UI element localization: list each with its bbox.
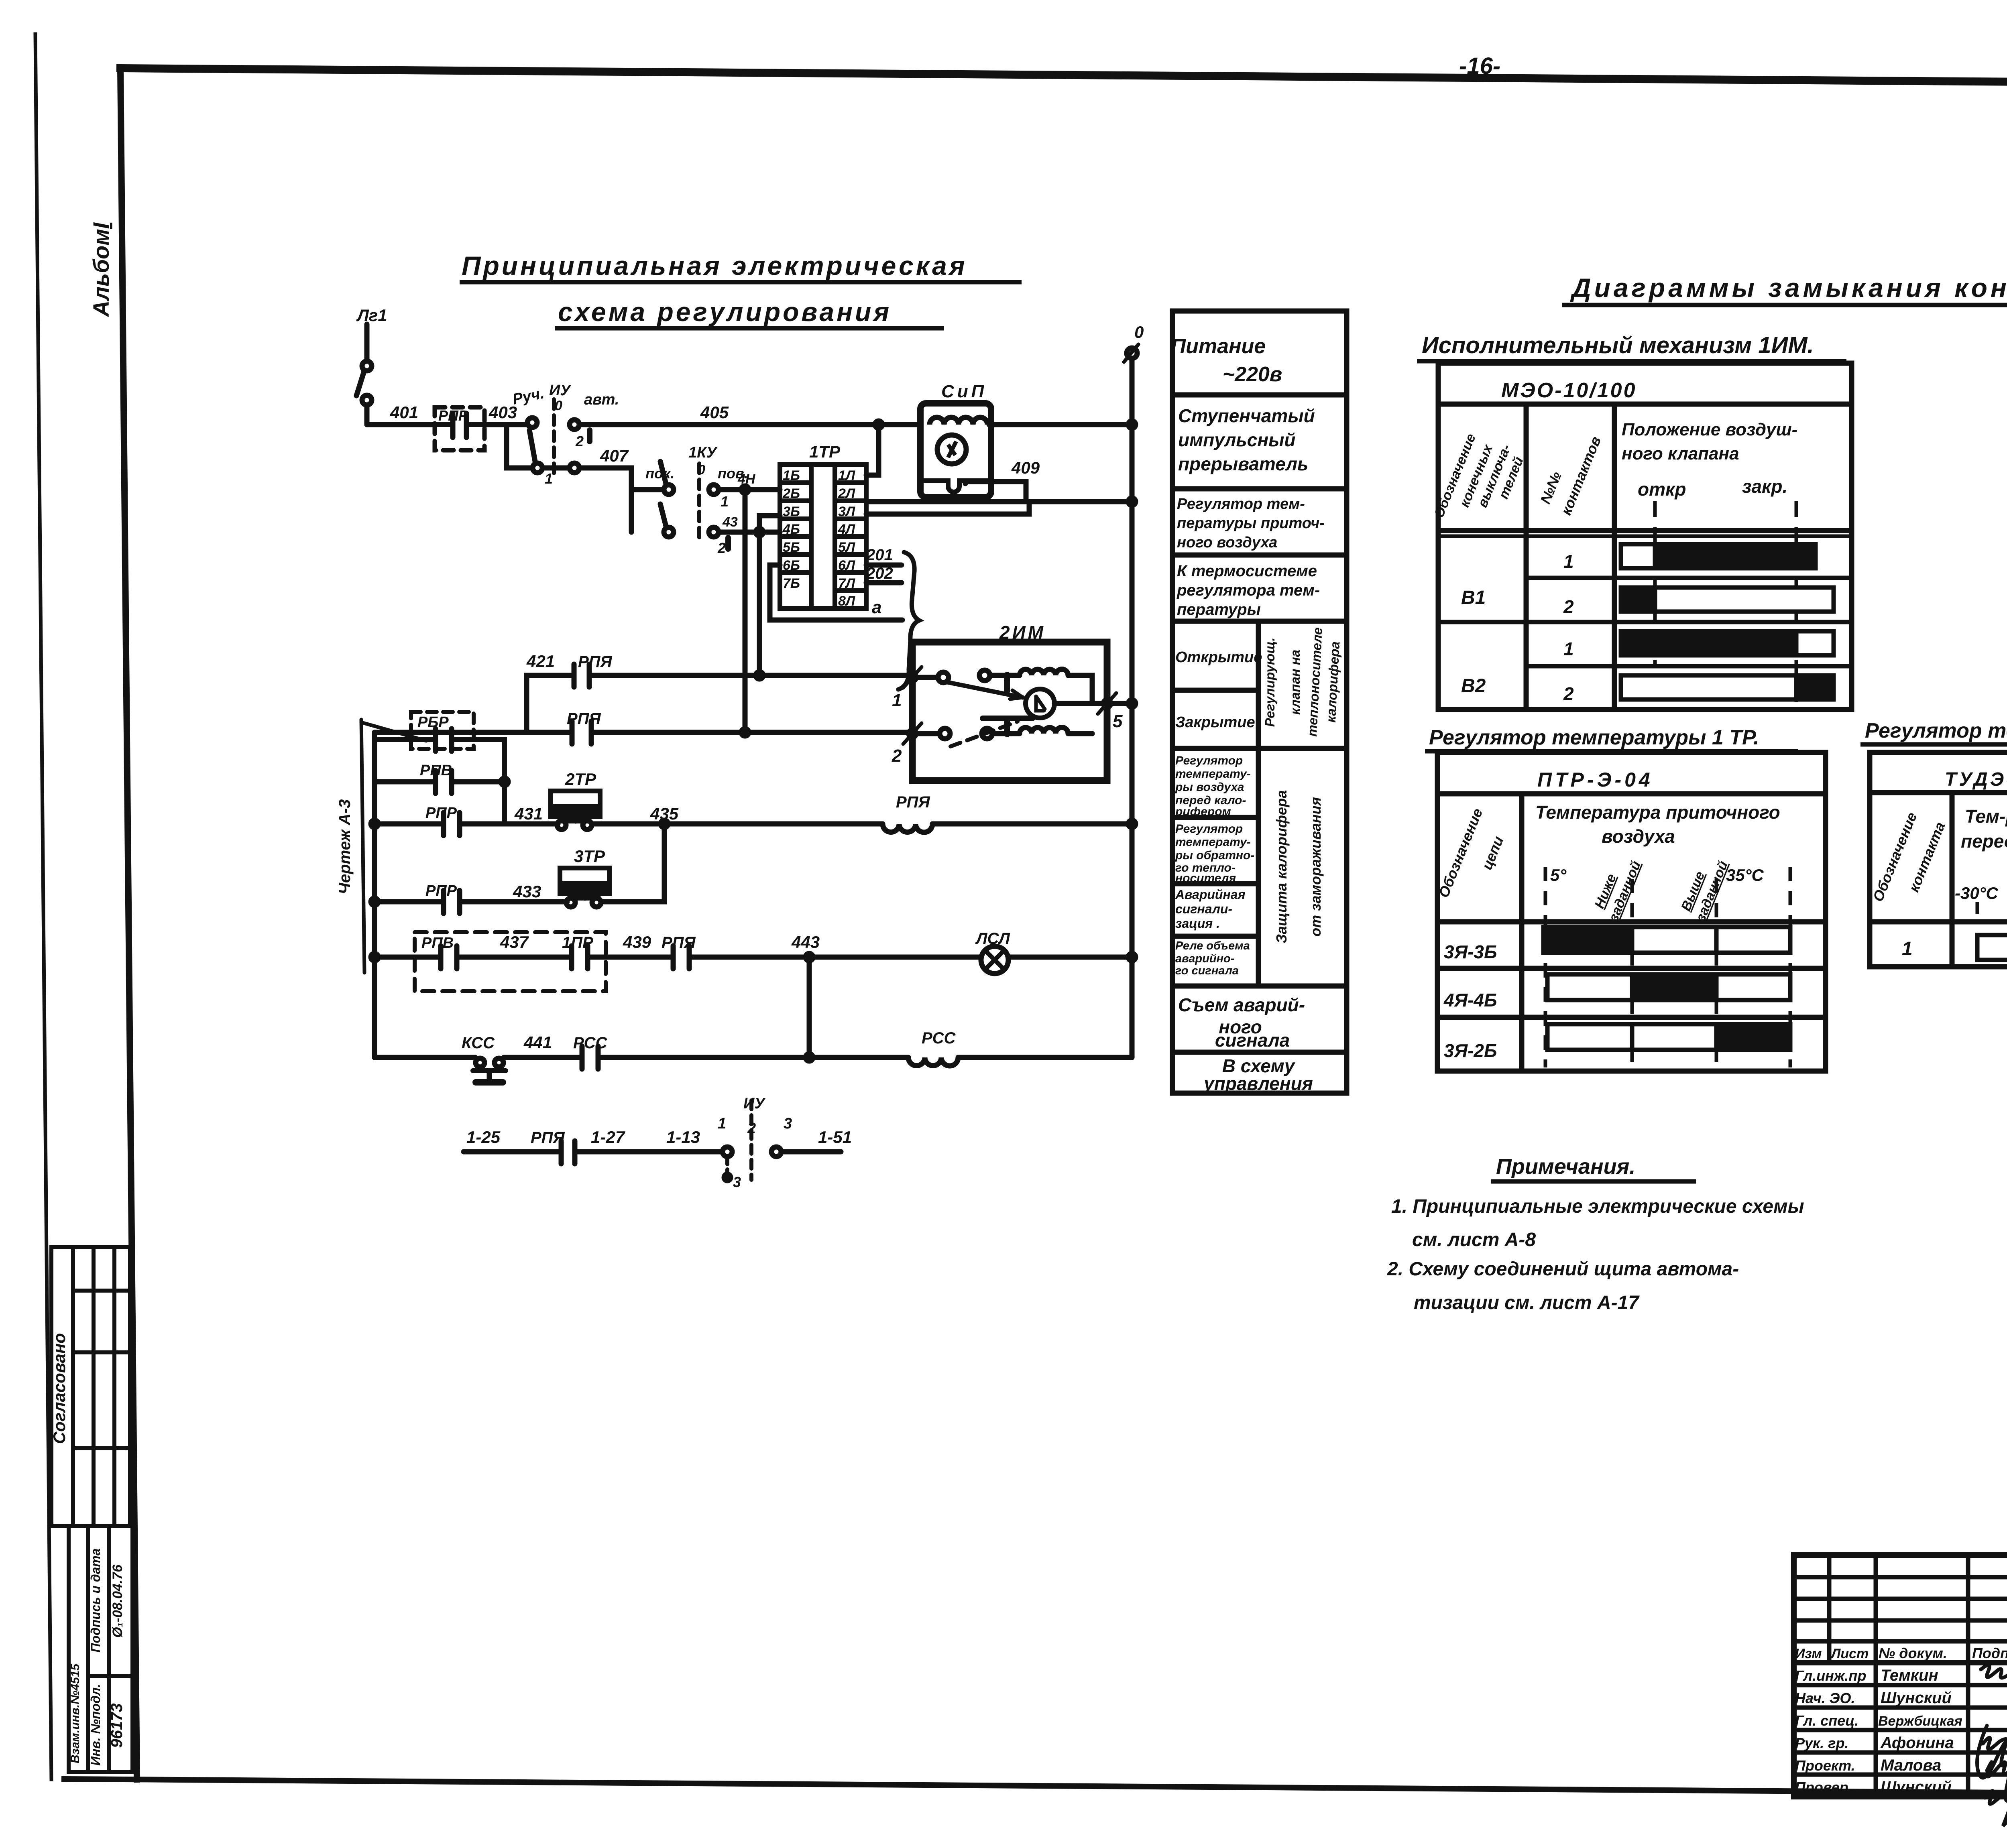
ИУ aux contact right (771, 1147, 781, 1157)
svg-text:Регулятор: Регулятор (1175, 822, 1243, 836)
svg-text:35°С: 35°С (1726, 866, 1764, 884)
contact РПЯ (421 row) (572, 664, 577, 687)
svg-text:2: 2 (717, 540, 726, 556)
svg-text:СиП: СиП (941, 382, 987, 401)
svg-text:Гл. спец.: Гл. спец. (1795, 1712, 1858, 1729)
svg-text:тизации см. лист А-17: тизации см. лист А-17 (1414, 1292, 1640, 1313)
ref leader diagonal to РБР (361, 722, 426, 741)
svg-text:401: 401 (390, 403, 418, 422)
svg-text:4Б: 4Б (782, 522, 800, 537)
contact пок row 1 (631, 487, 664, 492)
svg-text:ТУДЭ-1: ТУДЭ-1 (1945, 769, 2007, 790)
svg-text:1: 1 (892, 691, 902, 710)
1ИМ bar В1-2 (1621, 588, 1834, 612)
svg-text:409: 409 (1011, 458, 1040, 477)
title block frame (1794, 1555, 2007, 1797)
svg-text:Регулирующ.: Регулирующ. (1262, 638, 1277, 727)
svg-text:2Л: 2Л (838, 486, 855, 501)
svg-text:КСС: КСС (462, 1034, 495, 1052)
1ТР title underline (1425, 749, 1798, 754)
dashed enclosure 437 group (415, 932, 606, 991)
svg-text:Нач. ЭО.: Нач. ЭО. (1795, 1690, 1855, 1706)
2ИМ upper coil (990, 673, 1020, 678)
svg-text:-16-: -16- (1459, 53, 1500, 79)
svg-text:1: 1 (1902, 938, 1913, 960)
2ТР dashed marks (1977, 902, 2007, 923)
relay contact РПР (dashed box) (435, 407, 484, 450)
2ТР table frame (1870, 752, 2007, 967)
svg-text:433: 433 (513, 882, 541, 901)
svg-text:РСС: РСС (922, 1029, 956, 1047)
svg-text:1: 1 (721, 493, 729, 510)
main title underline 1 (460, 280, 1022, 285)
svg-text:ПТР-Э-04: ПТР-Э-04 (1537, 768, 1653, 791)
contact РБР dashed box (411, 712, 474, 749)
left margin table Согласовано (51, 1247, 130, 1526)
wire 421 row to 2ИМ (589, 673, 912, 678)
svg-text:Ø₁-08.04.76: Ø₁-08.04.76 (110, 1564, 125, 1638)
contact РБР (375, 737, 436, 742)
svg-text:443: 443 (791, 933, 820, 951)
svg-text:см. лист А-8: см. лист А-8 (1412, 1229, 1536, 1250)
svg-text:7Л: 7Л (838, 576, 855, 591)
svg-text:Съем аварий-: Съем аварий- (1178, 994, 1305, 1015)
switch ИУ auto contacts (570, 420, 579, 429)
svg-text:ИУ: ИУ (743, 1095, 766, 1112)
relay coil РСС (908, 1057, 958, 1066)
2ИМ input 1 crossing (909, 674, 916, 681)
svg-text:43: 43 (722, 514, 738, 530)
svg-text:импульсный: импульсный (1178, 429, 1296, 450)
2ИМ upper T-bar (1004, 675, 1010, 691)
wire 43 to terminal 4Б (719, 530, 780, 535)
switch ЛВ (362, 361, 372, 371)
svg-text:В2: В2 (1461, 675, 1486, 697)
thermostat 2ТР (551, 791, 600, 817)
vertical link 4Н to РПЯ row (743, 490, 748, 732)
contact РПЯ (main row) (570, 721, 575, 744)
svg-text:РПР: РПР (425, 805, 457, 821)
svg-text:3: 3 (733, 1174, 741, 1190)
svg-text:К термосистеме: К термосистеме (1177, 562, 1317, 580)
svg-text:пературы приточ-: пературы приточ- (1177, 515, 1325, 532)
ref leader line vertical (361, 720, 364, 973)
svg-text:РПЯ: РПЯ (567, 710, 601, 728)
svg-text:405: 405 (700, 403, 729, 422)
terminal labels Б side (782, 468, 800, 591)
contact РПВ (433, 771, 438, 793)
svg-text:Изм: Изм (1795, 1646, 1822, 1661)
vertical link 3Б to 421 row (759, 516, 780, 675)
1ИМ table frame (1438, 363, 1852, 710)
СиП meter circle (937, 435, 966, 464)
svg-text:Диаграммы замыкания контакто: Диаграммы замыкания контактов (1570, 273, 2007, 303)
revision grid (1794, 1555, 2007, 1797)
ИУ aux contact left (723, 1147, 732, 1157)
svg-text:439: 439 (623, 933, 651, 951)
svg-text:температу-: температу- (1175, 836, 1251, 849)
svg-text:Подпись и дата: Подпись и дата (88, 1548, 103, 1652)
ИУ aux lower dot (725, 1157, 729, 1174)
svg-text:Вержбицкая: Вержбицкая (1878, 1714, 1962, 1729)
svg-text:АльбомI: АльбомI (88, 222, 114, 317)
switch ИУ hand contact (527, 418, 537, 427)
svg-text:2ТР: 2ТР (565, 770, 596, 789)
2ИМ upper contacts (916, 675, 938, 680)
right bus terminal circle (1127, 348, 1137, 358)
contact РПР (2ТР row) (441, 813, 446, 836)
wire 435 segment (592, 821, 883, 827)
svg-text:Регулятор: Регулятор (1175, 754, 1243, 767)
svg-text:1КУ: 1КУ (688, 444, 718, 461)
svg-text:Лг1: Лг1 (356, 306, 387, 325)
svg-text:1-51: 1-51 (818, 1128, 852, 1147)
auxiliary contacts row (464, 1100, 841, 1181)
svg-text:3Я-2Б: 3Я-2Б (1444, 1040, 1497, 1061)
1ИМ title underline (1417, 359, 1846, 364)
svg-text:Провер.: Провер. (1795, 1779, 1852, 1795)
svg-text:6Б: 6Б (783, 558, 800, 573)
svg-text:Лист: Лист (1830, 1646, 1869, 1661)
svg-text:1: 1 (1563, 638, 1574, 659)
svg-text:РБР: РБР (417, 714, 449, 731)
right bus junction dots (1128, 421, 1136, 428)
svg-text:регулятора тем-: регулятора тем- (1177, 581, 1320, 599)
svg-text:ры обратно-: ры обратно- (1175, 849, 1254, 862)
wire 201 from 6Л (866, 563, 902, 568)
svg-text:435: 435 (650, 804, 679, 823)
terminal block 1ТР (780, 465, 866, 608)
wire РПЯ row (375, 730, 569, 735)
ИУ aux dashed axis (749, 1100, 753, 1180)
svg-text:Аварийная: Аварийная (1175, 887, 1246, 902)
svg-text:4Л: 4Л (838, 522, 855, 537)
svg-text:Принципиальная электрическая: Принципиальная электрическая (462, 251, 967, 281)
2ИМ output 5 (1054, 701, 1107, 706)
wire 1Л to bus (866, 425, 879, 475)
svg-text:Положение воздуш-: Положение воздуш- (1622, 420, 1797, 439)
device СиП box (920, 403, 991, 497)
svg-text:1-25: 1-25 (466, 1128, 501, 1147)
svg-text:1: 1 (1563, 551, 1574, 572)
2ИМ lower dashed blade (951, 722, 1018, 746)
svg-text:от замораживания: от замораживания (1307, 797, 1324, 937)
wire 4Н to terminal 2Б (719, 487, 780, 492)
wire 3ТР row (375, 899, 444, 905)
svg-text:а: а (872, 598, 881, 617)
svg-text:Подп.: Подп. (1972, 1645, 2007, 1661)
wire 403 segment (484, 422, 527, 427)
wire 3ТР to 435 junction (602, 824, 664, 902)
svg-text:8Л: 8Л (838, 594, 855, 609)
contact РПВ (437 row) (438, 946, 444, 969)
wire РПВ row (375, 779, 436, 785)
wire 3Л (866, 502, 1029, 514)
svg-text:1. Принципиальные электрическ: 1. Принципиальные электрические схемы (1391, 1196, 1804, 1217)
2ИМ lower coil (992, 731, 1020, 736)
contact РПР (3ТР row) (441, 890, 446, 913)
frame top border (120, 68, 2007, 86)
svg-text:0: 0 (555, 398, 562, 413)
svg-text:421: 421 (526, 652, 555, 671)
svg-text:Защита калорифера: Защита калорифера (1273, 790, 1290, 943)
svg-text:ного клапана: ного клапана (1622, 444, 1739, 464)
wire КСС row (375, 1055, 475, 1060)
svg-text:Взам.инв.№4515: Взам.инв.№4515 (69, 1663, 82, 1764)
svg-text:441: 441 (523, 1033, 552, 1052)
svg-text:Регулятор температуры 2ТР.: Регулятор температуры 2ТР. (1865, 719, 2007, 742)
svg-text:рифером: рифером (1175, 805, 1231, 818)
contact пов row 2 (664, 527, 674, 537)
svg-text:ЛСЛ: ЛСЛ (975, 930, 1010, 947)
svg-text:201: 201 (866, 546, 893, 564)
svg-text:ИУ: ИУ (549, 382, 572, 399)
svg-text:сигнали-: сигнали- (1175, 902, 1232, 916)
actuator 2ИМ box (912, 642, 1107, 781)
diagrams title underline (1562, 303, 2007, 307)
svg-text:Исполнительный механизм 1ИМ.: Исполнительный механизм 1ИМ. (1422, 332, 1814, 358)
svg-text:3ТР: 3ТР (574, 847, 605, 866)
svg-text:2: 2 (892, 746, 902, 766)
switch 1КУ dashed axis (697, 464, 701, 540)
svg-text:407: 407 (600, 446, 629, 465)
main title underline 2 (555, 326, 944, 331)
svg-text:откр: откр (1638, 479, 1686, 500)
svg-text:Реле объема: Реле объема (1175, 939, 1250, 952)
svg-text:1: 1 (545, 470, 553, 487)
bus junction dot (875, 421, 882, 428)
svg-text:5°: 5° (1550, 866, 1567, 884)
wire 2ТР row to bus (932, 821, 1132, 827)
signature scribbles (1977, 1665, 2007, 1826)
svg-text:Регулятор температуры 1 ТР.: Регулятор температуры 1 ТР. (1429, 726, 1759, 749)
svg-text:5Л: 5Л (838, 540, 855, 555)
svg-text:Гл.инж.пр: Гл.инж.пр (1795, 1667, 1866, 1684)
svg-text:РСС: РСС (573, 1034, 608, 1052)
svg-text:Согласовано: Согласовано (50, 1333, 69, 1444)
svg-text:РПЯ: РПЯ (578, 653, 612, 671)
svg-text:5Б: 5Б (783, 540, 800, 555)
contact РПЯ (437 row) (671, 946, 676, 969)
frame left border (120, 68, 137, 1779)
svg-text:РПР: РПР (438, 407, 468, 424)
svg-text:1Л: 1Л (838, 468, 855, 483)
legend table frame (1172, 311, 1347, 1093)
svg-text:РПЯ: РПЯ (531, 1129, 565, 1147)
svg-text:Темкин: Темкин (1881, 1667, 1938, 1684)
1ТР dashed marks (1545, 867, 1790, 1067)
svg-text:пературы: пературы (1177, 601, 1261, 618)
wire 421 branch (527, 675, 571, 732)
svg-text:МЭО-10/100: МЭО-10/100 (1501, 379, 1637, 402)
svg-text:Малова: Малова (1881, 1757, 1941, 1774)
svg-text:~220в: ~220в (1223, 363, 1282, 386)
svg-text:носителя: носителя (1175, 872, 1236, 885)
svg-text:3: 3 (784, 1115, 792, 1132)
svg-text:0: 0 (698, 462, 705, 478)
svg-text:1: 1 (718, 1115, 726, 1132)
notes title underline (1491, 1179, 1696, 1184)
svg-text:1-27: 1-27 (591, 1128, 625, 1147)
svg-text:1-13: 1-13 (666, 1128, 700, 1147)
1ИМ dashed mark откр (1653, 501, 1657, 666)
switch ИУ dashed axis (552, 399, 556, 474)
СиП bottom contact (920, 481, 991, 492)
svg-text:пок.: пок. (645, 465, 674, 482)
svg-text:температу-: температу- (1175, 767, 1251, 781)
СиП meter needle (948, 441, 956, 457)
wire drop to manual branch (507, 425, 533, 468)
svg-text:Шунский: Шунский (1881, 1689, 1952, 1707)
svg-text:4Я-4Б: 4Я-4Б (1443, 990, 1497, 1010)
svg-text:4Н: 4Н (737, 472, 756, 487)
svg-text:Закрытие: Закрытие (1175, 714, 1255, 731)
svg-text:Чертеж А-3: Чертеж А-3 (336, 799, 354, 895)
svg-text:РПЯ: РПЯ (896, 793, 930, 811)
svg-text:2: 2 (1563, 596, 1574, 617)
terminal labels Л side (838, 468, 855, 609)
2ИМ lower contacts (916, 731, 939, 736)
svg-text:Открытие: Открытие (1175, 649, 1262, 666)
svg-text:ного воздуха: ного воздуха (1177, 534, 1277, 551)
svg-text:зация .: зация . (1175, 916, 1220, 931)
right bus vertical (1130, 358, 1135, 1057)
svg-text:РПВ: РПВ (420, 762, 452, 779)
svg-text:сигнала: сигнала (1215, 1030, 1290, 1051)
bracket а (898, 552, 919, 689)
wire 6Б loop to bracket (770, 565, 902, 620)
svg-text:2. Схему соединений щита ав: 2. Схему соединений щита автома- (1387, 1258, 1739, 1280)
svg-text:аварийно-: аварийно- (1175, 952, 1234, 965)
svg-text:Афонина: Афонина (1880, 1734, 1954, 1752)
svg-text:96173: 96173 (108, 1703, 126, 1748)
wire 1-25 РПЯ 1-27 (464, 1149, 561, 1155)
svg-text:437: 437 (500, 933, 529, 951)
wire 409 from СиП (965, 482, 1026, 502)
svg-text:РПЯ: РПЯ (662, 934, 696, 951)
svg-text:Питание: Питание (1171, 335, 1266, 358)
svg-text:Ступенчатый: Ступенчатый (1178, 405, 1315, 426)
svg-text:Тем-ра воздуха: Тем-ра воздуха (1965, 806, 2007, 827)
wire from Лг1 down to switch (364, 324, 370, 361)
left bus vertical (372, 732, 377, 1057)
wire 2Л to right bus (866, 499, 1132, 504)
2ТР bar (1977, 935, 2007, 960)
svg-text:Шунский: Шунский (1881, 1778, 1952, 1796)
2ТР title underline (1860, 742, 2007, 747)
svg-text:Рук. гр.: Рук. гр. (1795, 1735, 1849, 1751)
svg-text:управления: управления (1203, 1073, 1313, 1094)
pushbutton КСС (476, 1058, 484, 1067)
contact РСС (580, 1046, 585, 1069)
svg-text:202: 202 (866, 565, 893, 582)
1ИМ bar В1-1 (1621, 544, 1816, 568)
svg-text:2Б: 2Б (782, 486, 800, 501)
svg-text:ры воздуха: ры воздуха (1175, 781, 1244, 794)
svg-text:Регулятор тем-: Регулятор тем- (1177, 496, 1305, 512)
vertical 443 to КСС row (807, 957, 812, 1057)
svg-text:Инв. №подл.: Инв. №подл. (88, 1684, 103, 1766)
svg-text:2: 2 (575, 433, 584, 449)
svg-text:Проект.: Проект. (1795, 1757, 1855, 1774)
svg-text:№ докум.: № докум. (1879, 1645, 1947, 1661)
svg-text:Температура приточного: Температура приточного (1535, 802, 1780, 823)
1ИМ dashed mark закр (1795, 501, 1798, 710)
bus wire 405 (579, 422, 920, 427)
svg-text:РПР: РПР (425, 882, 457, 899)
wire 437 row (375, 955, 441, 960)
svg-text:схема регулирования: схема регулирования (558, 297, 892, 327)
svg-text:1ТР: 1ТР (809, 442, 841, 461)
svg-text:клапан на: клапан на (1288, 650, 1303, 715)
sheet thin outer left border (35, 34, 51, 1779)
wire 2ТР row (375, 821, 444, 827)
wire 407 (542, 466, 570, 471)
svg-text:431: 431 (514, 804, 543, 823)
thermostat 3ТР (560, 868, 609, 894)
СиП coil (930, 417, 987, 425)
motor Д (1026, 689, 1054, 718)
2ИМ selector blade with arrow (947, 682, 1023, 697)
frame bottom border (64, 1779, 2007, 1797)
1ТР table frame (1437, 752, 1826, 1071)
svg-text:3Л: 3Л (838, 504, 855, 519)
1ТР bar 4Я-4Б (1547, 974, 1790, 1000)
relay coil РПЯ (883, 824, 932, 832)
1ТР bar 3Я-2Б (1547, 1024, 1790, 1050)
svg-text:3Я-3Б: 3Я-3Б (1444, 941, 1497, 962)
svg-text:0: 0 (1134, 323, 1144, 342)
wire 1-13 (664, 1149, 722, 1155)
svg-text:го сигнала: го сигнала (1175, 964, 1239, 977)
svg-text:2: 2 (747, 1120, 756, 1137)
wire 1-51 (782, 1149, 841, 1155)
svg-text:воздуха: воздуха (1602, 826, 1675, 847)
svg-text:5: 5 (1113, 712, 1123, 731)
svg-text:Примечания.: Примечания. (1496, 1155, 1635, 1179)
wire bus 401 segment (367, 422, 435, 427)
svg-text:6Л: 6Л (838, 558, 855, 573)
svg-text:403: 403 (489, 403, 517, 422)
svg-text:закр.: закр. (1742, 476, 1787, 497)
svg-text:7Б: 7Б (783, 576, 800, 591)
wire 202 from 7Л (866, 580, 902, 586)
2ИМ lower T-bar (1004, 718, 1010, 734)
left margin table Инв No подл (69, 1526, 132, 1772)
svg-text:В1: В1 (1461, 587, 1486, 608)
1ИМ bar В2-1 (1621, 631, 1834, 655)
svg-text:прерыватель: прерыватель (1178, 453, 1308, 474)
2ИМ input 2 crossing (909, 730, 916, 737)
svg-text:перед калорифером: перед калорифером (1961, 831, 2007, 852)
contact 1ПР (569, 946, 574, 969)
1ИМ bar В2-2 (1621, 675, 1834, 699)
svg-text:авт.: авт. (584, 391, 619, 408)
svg-text:3Б: 3Б (783, 504, 800, 519)
svg-text:1Б: 1Б (783, 468, 800, 483)
svg-text:2: 2 (1563, 683, 1574, 704)
svg-text:1ПР: 1ПР (562, 934, 593, 951)
svg-text:РПВ: РПВ (421, 935, 454, 951)
1ТР bar 3Я-3Б (1543, 927, 1790, 953)
svg-text:-30°С: -30°С (1955, 884, 1998, 903)
lamp ЛСЛ (981, 946, 1008, 974)
